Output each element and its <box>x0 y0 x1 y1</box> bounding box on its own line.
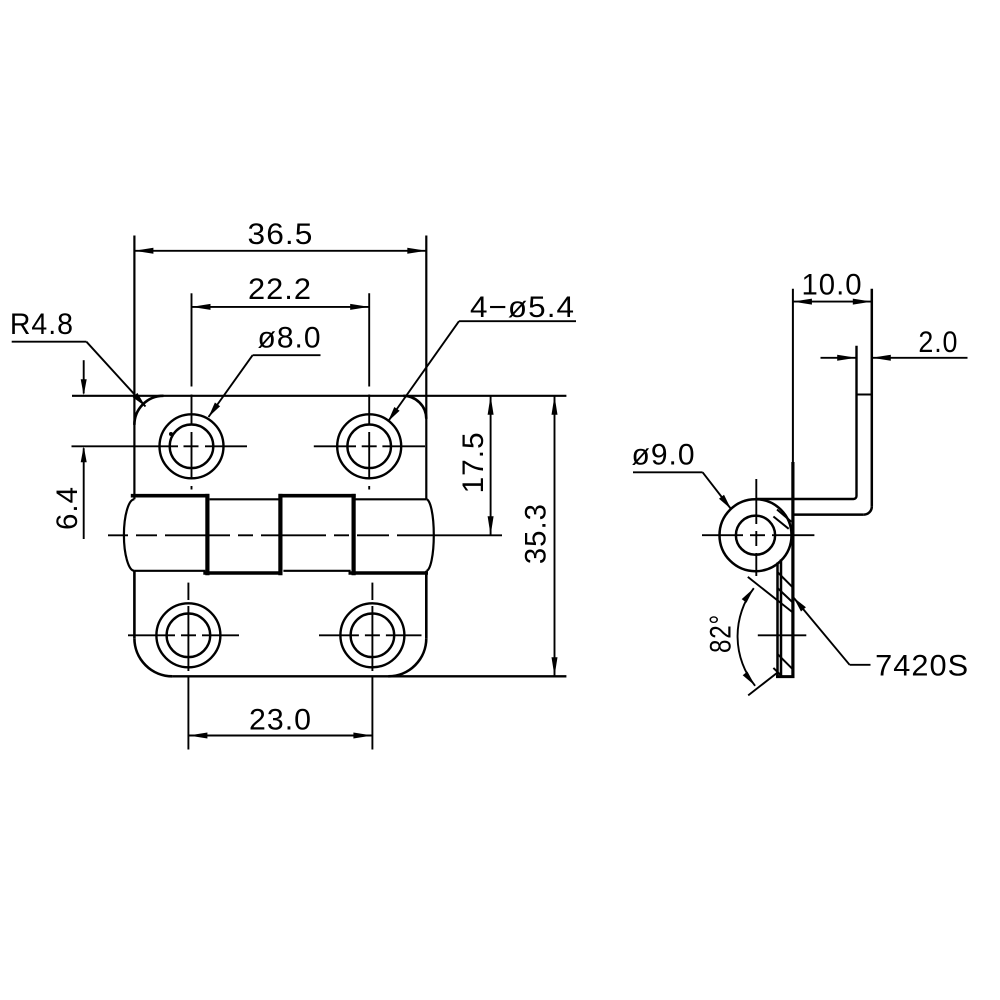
svg-text:4−ø5.4: 4−ø5.4 <box>470 291 575 324</box>
svg-text:10.0: 10.0 <box>802 268 863 301</box>
svg-text:6.4: 6.4 <box>51 486 84 530</box>
svg-text:7420S: 7420S <box>875 650 969 683</box>
svg-text:ø9.0: ø9.0 <box>632 438 696 471</box>
svg-text:ø8.0: ø8.0 <box>258 321 322 354</box>
svg-text:82°: 82° <box>704 614 737 653</box>
svg-text:17.5: 17.5 <box>457 431 490 493</box>
svg-text:22.2: 22.2 <box>248 273 312 306</box>
svg-text:36.5: 36.5 <box>248 218 314 251</box>
svg-text:R4.8: R4.8 <box>10 308 74 341</box>
svg-text:23.0: 23.0 <box>249 703 312 736</box>
svg-text:35.3: 35.3 <box>519 503 552 564</box>
svg-text:2.0: 2.0 <box>918 326 958 359</box>
